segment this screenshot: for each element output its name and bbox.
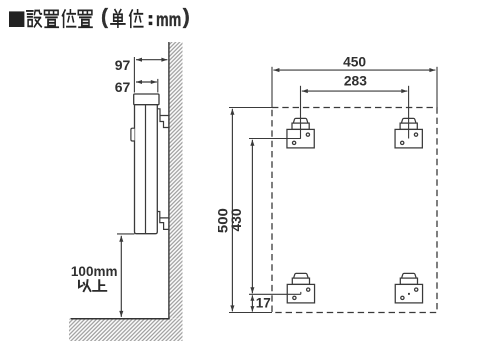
title colon dots [149,15,153,18]
title kanji 単 [111,10,125,27]
dim 17 top arrow [250,295,254,301]
bracket top-left [287,118,314,148]
svg-text:): ) [183,6,190,29]
dim 430 bottom arrow [250,287,254,293]
dim 283 left arrow [302,89,308,93]
dim 17 line [251,295,253,311]
dim 450 right arrow [429,68,435,72]
heater top cap [134,94,159,105]
svg-text:mm: mm [156,9,181,30]
svg-text:100mm: 100mm [71,264,118,279]
svg-text:430: 430 [229,208,244,231]
title kanji 置 [78,10,92,27]
dim 450 right extension [436,67,438,108]
dim 97 extension line [133,57,135,93]
heater panel divider [145,105,147,234]
dim 500 top extension [229,107,272,109]
dim 500 line [231,109,233,312]
dim label kanji 上 [93,280,106,291]
floor hatched area [69,319,183,341]
dim label kanji 以 [79,280,91,291]
upper wall hook [157,109,169,128]
dim 283 right arrow [401,89,407,93]
dim 97 line [136,59,167,61]
svg-text:17: 17 [256,296,271,311]
svg-text:67: 67 [115,79,131,95]
dim 430 bottom tick [300,292,302,294]
dim 283 right extension [408,86,410,139]
wall edge line [168,42,170,319]
title kanji 設 [27,11,42,27]
left tab [131,128,135,141]
floor edge line [71,318,170,320]
dim 500 top arrow [230,109,234,115]
dim 430 top extension [249,138,301,140]
lower wall hook [157,212,169,230]
title kanji 位 [62,10,75,27]
dim 100mm line [120,236,122,317]
dim 500 bottom extension [229,312,272,314]
dim 450 left extension [271,67,273,108]
bolt center dot bottom-right [408,293,410,295]
bracket bottom-right [395,273,422,303]
dim 500 bottom arrow [230,305,234,311]
dim 430 top arrow [250,140,254,146]
dim 430 bottom extension [249,293,301,295]
dim 450 left arrow [273,68,279,72]
dim 67 left arrow [136,80,142,84]
bracket bottom-left [287,273,314,303]
svg-text:97: 97 [115,57,131,73]
dim 97 left arrow [136,58,142,62]
dim 67 right arrow [151,80,157,84]
svg-text:450: 450 [343,54,366,69]
dim 283 left extension [300,86,302,139]
title bullet square [9,11,24,27]
svg-text:(: ( [101,6,108,29]
dim 17 bottom arrow [250,306,254,312]
dim 100mm bottom arrow [119,311,123,317]
heater body [135,105,158,234]
title kanji 位 [130,10,143,27]
dim 97 right arrow [161,58,167,62]
bracket top-right [395,118,422,148]
svg-text:283: 283 [344,74,367,89]
title kanji 置 [44,10,58,27]
dim 283 line [302,90,408,92]
dim 450 line [273,69,435,71]
dim 67 line [136,81,157,83]
dim 430 line [251,140,253,294]
dim 100mm top arrow [119,236,123,242]
dim 67 extension line [157,79,159,93]
dashed outline rectangle [272,108,437,313]
wall hatched area [169,42,183,319]
dim 100mm extension line [117,233,135,235]
